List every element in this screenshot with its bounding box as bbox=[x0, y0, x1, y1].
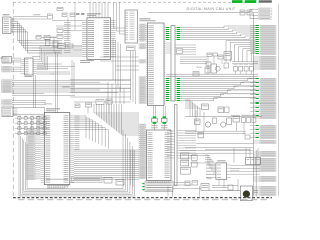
svg-text:DIGITAL MAIN CBU UNIT: DIGITAL MAIN CBU UNIT bbox=[187, 7, 236, 11]
